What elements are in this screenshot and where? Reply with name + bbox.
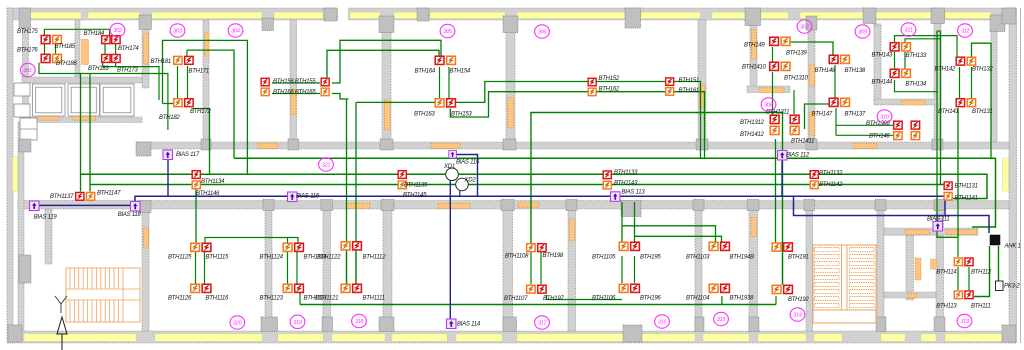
device pair BTH1124/1114	[283, 243, 292, 251]
device pair BTH152/162 stack	[588, 78, 596, 86]
wall room 317|316	[568, 209, 576, 331]
room number 309	[855, 25, 870, 38]
svg-text:BTH1131: BTH1131	[955, 184, 978, 190]
column x510	[503, 16, 518, 33]
column wall junction x201	[201, 139, 211, 150]
device pair BTH1106/196	[619, 284, 628, 292]
svg-text:AHK 1: AHK 1	[1004, 244, 1021, 250]
opening closet 1	[39, 115, 59, 120]
column wall junction bottom x875	[875, 200, 886, 211]
device pair BTH163/153	[435, 99, 444, 107]
svg-text:BTH1386: BTH1386	[866, 121, 891, 127]
device pair BTH114/112	[954, 258, 962, 266]
outer contour right	[1020, 8, 1022, 343]
device pair BTH147/137	[829, 98, 838, 106]
svg-text:303: 303	[173, 29, 181, 35]
wire room311 to crossers	[905, 39, 941, 43]
wall room 307 left	[750, 20, 757, 92]
svg-text:BTH182: BTH182	[159, 115, 180, 121]
wire room311 pair links	[895, 52, 906, 70]
svg-text:BIAS 119: BIAS 119	[34, 215, 58, 221]
svg-text:BTH111: BTH111	[971, 304, 991, 310]
column bottom wall x939	[934, 317, 945, 332]
corridor device BTH1136/1146	[192, 171, 200, 179]
wire riser to room318 b	[355, 102, 357, 284]
wall room 311|312	[934, 20, 941, 142]
room number 308	[761, 98, 776, 111]
opening in wall x203	[204, 33, 209, 56]
wire room302 cluster links	[105, 36, 116, 66]
svg-text:BTH154: BTH154	[450, 69, 471, 75]
wall room 305|306	[506, 20, 515, 142]
wire riser room302 to corridor	[80, 74, 82, 192]
svg-text:BTH1134: BTH1134	[201, 179, 225, 185]
svg-text:308: 308	[764, 103, 772, 109]
wall room 319|318	[323, 209, 331, 331]
exterior wall bottom	[8, 331, 1016, 343]
wire room316-315 bridge a	[622, 202, 716, 242]
wire room302 lower exit	[103, 63, 159, 101]
opening in wall x506	[508, 98, 514, 128]
shaft boxes left lobby	[20, 118, 37, 140]
svg-text:BTH114: BTH114	[936, 270, 957, 276]
closet boxes top-left	[33, 84, 66, 116]
svg-text:BIAS 111: BIAS 111	[927, 217, 949, 223]
column bottom-left corner	[8, 325, 22, 342]
wire room308 riser down	[775, 139, 777, 242]
svg-text:BTH1143: BTH1143	[614, 181, 638, 187]
svg-text:BTH1116: BTH1116	[206, 296, 230, 302]
svg-text:321: 321	[322, 163, 330, 169]
column on top wall x145	[139, 15, 152, 30]
svg-text:BTH162: BTH162	[599, 87, 620, 93]
svg-text:BTH1125: BTH1125	[168, 255, 192, 261]
device pair BTH113/111	[954, 291, 962, 299]
wall room 303|304	[203, 20, 209, 142]
room number 311	[901, 23, 916, 36]
svg-text:BTH184: BTH184	[84, 31, 105, 37]
wire room318 pair links	[347, 252, 357, 284]
svg-text:BTH1412: BTH1412	[740, 132, 765, 138]
column x143 corridor bottom	[139, 201, 151, 213]
wall room 307|309	[808, 20, 815, 142]
column bottom wall x754	[749, 317, 759, 332]
device pair BTH1122/1112	[341, 242, 350, 250]
wall |room 317	[503, 209, 513, 331]
wall shaft|room 313	[936, 209, 944, 331]
device pair BTH155/165 stack	[321, 78, 329, 86]
wire room302-303 links	[89, 74, 91, 76]
device pair BTH1125/1115	[191, 243, 200, 251]
column bottom-right corner	[1002, 325, 1016, 342]
svg-text:BTH166 BTH165: BTH166 BTH165	[273, 90, 316, 96]
room number 317	[535, 316, 550, 329]
svg-text:BTH152: BTH152	[599, 76, 620, 82]
AHK 1 black box	[990, 235, 1000, 245]
svg-text:XD2: XD2	[464, 178, 477, 184]
wire riser 311b down	[940, 31, 942, 185]
device pair BTH192	[772, 285, 781, 293]
svg-text:BTH113: BTH113	[936, 304, 957, 310]
wire riser 312 down	[957, 108, 959, 237]
svg-text:BTH143: BTH143	[872, 53, 893, 59]
wire navy BIAS114 riser	[449, 181, 451, 319]
wire green PK loop	[974, 246, 999, 297]
svg-text:BTH174: BTH174	[118, 46, 139, 52]
duct box left 1	[14, 83, 30, 96]
svg-text:BTH139: BTH139	[786, 51, 807, 57]
room number 302	[110, 23, 125, 36]
wire room304 loop b	[327, 50, 439, 77]
opening in wall x808	[810, 65, 815, 86]
wire navy BIAS119-BIAS118	[37, 204, 131, 206]
device pair BTH142/132	[956, 57, 964, 65]
wire navy BIAS112 drop	[781, 160, 783, 196]
insulation strip bottom	[24, 334, 136, 341]
room number 301	[20, 63, 35, 76]
svg-text:318: 318	[355, 319, 363, 325]
device pair BTH1410/1310	[770, 62, 779, 70]
wall between rooms 301-302	[75, 20, 80, 77]
svg-text:BTH1132: BTH1132	[819, 171, 843, 177]
wire riser 311 down	[937, 31, 958, 237]
svg-text:BTH172: BTH172	[190, 109, 211, 115]
wire room301-302 top link	[44, 29, 109, 35]
column wall junction bottom x321	[321, 200, 333, 211]
room number 310	[877, 110, 892, 123]
wall room 315|314	[749, 209, 758, 331]
svg-text:BTH142: BTH142	[935, 67, 956, 73]
svg-text:BTH1112: BTH1112	[363, 255, 387, 261]
wire green corridor bus 1	[234, 158, 996, 227]
inner wall left zone	[18, 122, 24, 331]
insulation strip left	[13, 157, 19, 191]
svg-text:BTH1142: BTH1142	[819, 182, 843, 188]
svg-text:BTH1123: BTH1123	[260, 296, 284, 302]
wall above lobby (left)	[22, 117, 142, 123]
svg-text:BIAS 115: BIAS 115	[456, 160, 480, 166]
column x423	[417, 8, 429, 21]
svg-text:BTH1126: BTH1126	[168, 296, 192, 302]
svg-text:BTH133: BTH133	[906, 53, 927, 59]
svg-text:BTH183: BTH183	[88, 66, 109, 72]
wire riser into room308 cluster	[793, 90, 795, 114]
device pair BTH141/131	[956, 99, 964, 107]
room number 320	[230, 316, 245, 329]
svg-text:BTH195: BTH195	[640, 255, 661, 261]
room number 319	[290, 315, 305, 328]
svg-text:311: 311	[905, 28, 913, 34]
room number 306	[535, 25, 550, 38]
column wall junction x503	[503, 139, 516, 150]
device pair BTH182	[174, 99, 182, 107]
svg-text:BTH1124: BTH1124	[260, 255, 284, 261]
wall left lobby (bottom)	[45, 209, 52, 264]
wire room304 stack links	[272, 83, 320, 94]
BIAS device BIAS 115	[449, 151, 457, 159]
wire green corridor bus 2	[81, 174, 988, 198]
column wall junction x806	[806, 139, 817, 150]
svg-text:314: 314	[793, 313, 801, 319]
svg-text:BTH191: BTH191	[788, 255, 809, 261]
svg-text:BTH197: BTH197	[543, 296, 564, 302]
opening corridor top wall x431	[431, 143, 460, 148]
room number 304	[228, 24, 243, 37]
svg-text:BTH198: BTH198	[543, 253, 564, 259]
svg-text:BTH1312: BTH1312	[740, 120, 765, 126]
wire room314 bottom	[775, 296, 777, 304]
svg-text:304: 304	[231, 29, 239, 35]
svg-text:BTH132: BTH132	[972, 67, 993, 73]
wire room303 inner drop	[186, 50, 188, 56]
wall left shaft (top band)	[23, 20, 29, 121]
column x938	[931, 8, 945, 24]
column corridor bottom x630	[621, 201, 641, 217]
svg-text:BTH192: BTH192	[788, 297, 809, 303]
svg-text:319: 319	[293, 320, 301, 326]
svg-text:BTH146: BTH146	[869, 134, 890, 140]
svg-text:BTH131: BTH131	[972, 109, 993, 115]
wire green corridor bus 4	[90, 184, 946, 186]
column x386	[379, 16, 394, 33]
svg-text:BTH1146: BTH1146	[196, 191, 220, 197]
svg-text:BTH194B: BTH194B	[730, 255, 755, 261]
opening in wall x142	[144, 34, 149, 65]
svg-text:320: 320	[233, 321, 241, 327]
wire room312 top right	[972, 43, 992, 158]
svg-text:BTH1410: BTH1410	[742, 65, 767, 71]
corridor device BTH1132/1142	[810, 171, 818, 179]
column bottom wall x386	[379, 317, 394, 332]
svg-text:316: 316	[658, 320, 666, 326]
wire room307-309	[790, 42, 833, 56]
svg-text:313: 313	[960, 319, 968, 325]
svg-text:BTH163: BTH163	[414, 112, 435, 118]
column left wall y255	[19, 255, 31, 283]
opening in wall y99 room 310	[901, 100, 925, 105]
device pair BTH1123/1113	[283, 284, 292, 292]
corridor device BTH1135/1145	[398, 171, 406, 179]
svg-text:302: 302	[113, 28, 121, 34]
wire room307 pair link	[772, 47, 774, 62]
shaft wall lower	[884, 292, 936, 298]
expansion joint gap	[337, 7, 349, 21]
corridor wall bottom	[18, 201, 1009, 210]
device pair BTH164/154	[435, 56, 444, 64]
device pair BTH1104/1938	[709, 284, 718, 292]
column wall junction x380	[380, 139, 393, 150]
device cluster room 310	[894, 121, 902, 129]
opening corridor bottom wall x346	[346, 203, 370, 208]
opening corridor top wall x853	[853, 143, 877, 148]
wire bus BTH152	[356, 82, 701, 159]
stairwell 2 wall right	[877, 209, 884, 331]
svg-text:301: 301	[24, 68, 32, 74]
wire room317 pair links	[531, 252, 541, 284]
opening wall x749	[751, 218, 757, 237]
wire room303 exit down	[193, 109, 210, 175]
Y axis symbol	[55, 296, 67, 313]
wire riser 2 to corridor	[89, 75, 91, 192]
opening corridor top wall x258	[258, 143, 278, 148]
wire navy corridor main	[135, 196, 945, 215]
wall room 309|310	[874, 99, 941, 105]
opening wall x142 bottom	[144, 228, 149, 248]
svg-text:BTH1133: BTH1133	[614, 170, 638, 176]
svg-text:BTH176: BTH176	[17, 48, 38, 54]
wire room319 pair links	[288, 252, 298, 284]
BIAS device BIAS 113	[611, 192, 621, 202]
BIAS device BIAS 114	[447, 319, 457, 329]
BIAS device BIAS 118	[131, 202, 141, 212]
column top-right	[990, 15, 1005, 32]
opening shaft wall b	[946, 230, 977, 235]
svg-text:BTH1135: BTH1135	[404, 183, 428, 189]
room number 305	[440, 24, 455, 37]
wire room313 top	[957, 237, 959, 257]
column corridor left end	[19, 139, 31, 152]
shaft wall vertical	[906, 232, 914, 300]
column wall junction bottom x934	[934, 200, 945, 211]
svg-text:XD1: XD1	[443, 164, 455, 170]
column wall junction x932	[932, 139, 943, 150]
junction box XD1	[446, 168, 459, 181]
wire room303 pair links	[163, 66, 188, 104]
svg-text:BTH1311: BTH1311	[766, 110, 789, 116]
column bottom wall x881	[876, 317, 886, 332]
free column x267	[262, 18, 274, 31]
column wall junction bottom x566	[566, 200, 577, 211]
svg-text:BTH175: BTH175	[17, 29, 38, 35]
corridor device BTH1133/1143	[603, 171, 611, 179]
svg-text:315: 315	[717, 317, 726, 323]
column bottom wall x510	[503, 317, 517, 332]
device pair BTH149/139	[770, 37, 779, 45]
wall room 316|315	[695, 209, 702, 331]
device pair BTH1126/1116	[191, 284, 200, 292]
wall room 309|310-311	[874, 24, 881, 101]
room number 312	[958, 24, 973, 37]
room number 307	[797, 20, 812, 33]
wire room306 long y112.5	[531, 113, 783, 285]
wire navy lower run to AHK	[794, 196, 990, 233]
device pair BTH156/166 stack	[261, 78, 269, 86]
opening in wall x750	[751, 30, 756, 60]
column bottom wall x632	[623, 325, 642, 342]
stairwell 2 wall left	[806, 209, 813, 331]
svg-text:BTH1145: BTH1145	[403, 193, 427, 199]
wire room314 pair links	[782, 254, 784, 285]
wall room 320|319	[265, 209, 272, 331]
column top-right corner	[1002, 8, 1016, 24]
device pair BTH175/185	[41, 35, 50, 43]
column x811	[806, 16, 817, 30]
wire room309 to room310	[836, 108, 893, 135]
svg-text:307: 307	[800, 25, 809, 31]
svg-text:BTH156 BTH155: BTH156 BTH155	[273, 79, 316, 85]
device pair room302 bottom	[102, 55, 110, 63]
wire room320 riser up	[195, 189, 197, 244]
svg-text:309: 309	[858, 30, 866, 36]
svg-text:312: 312	[961, 29, 969, 35]
opening in wall x698	[700, 85, 706, 107]
device pair BTH181	[174, 56, 182, 64]
room number 318	[352, 314, 367, 327]
svg-text:BTH1310: BTH1310	[784, 76, 809, 82]
wire room304 loop a	[332, 40, 441, 83]
BIAS device BIAS 117	[163, 150, 173, 160]
wire room316 pair links	[622, 256, 635, 283]
wall stair room|room 320	[142, 209, 149, 331]
svg-text:BTH164: BTH164	[415, 69, 436, 75]
wire room305 pair links	[440, 67, 450, 98]
room number 321	[319, 158, 334, 171]
column top-left corner	[19, 8, 31, 28]
device pair BTH1105/195	[619, 242, 628, 250]
corridor wall top	[137, 142, 1009, 149]
svg-text:BTH181: BTH181	[151, 59, 172, 65]
column corridor top wall x143	[136, 142, 151, 156]
wire room309 exit left	[805, 104, 831, 129]
device pair BTH1103/194B	[709, 242, 718, 250]
opening wall x936 upper	[931, 259, 938, 269]
device pair room302 top	[102, 36, 110, 44]
svg-text:BTH196: BTH196	[640, 296, 661, 302]
shaft wall upper	[884, 228, 978, 235]
device pair BTH148/138	[829, 55, 838, 63]
column wall junction bottom x804	[804, 200, 815, 211]
opening wall x568	[569, 219, 574, 241]
wall room 304|305	[382, 20, 391, 142]
svg-text:BTH148: BTH148	[815, 68, 836, 74]
BIAS device BIAS 111	[933, 222, 943, 232]
svg-text:BIAS 112: BIAS 112	[786, 153, 810, 159]
wire room309 pair link	[834, 65, 836, 98]
wire navy XD2 drop	[459, 191, 461, 196]
column wall junction x696	[696, 139, 708, 150]
svg-text:BTH1108: BTH1108	[505, 254, 529, 260]
column wall junction bottom x747	[747, 200, 759, 211]
wall room 306|307	[698, 20, 706, 142]
svg-text:BTH137: BTH137	[845, 112, 866, 118]
wire room311 lower exit	[895, 80, 939, 92]
svg-text:BTH173: BTH173	[117, 68, 138, 74]
insulation strip top	[30, 12, 81, 18]
wire bus BTH162	[332, 92, 705, 159]
exterior wall left	[7, 8, 13, 343]
room number 303	[170, 24, 185, 37]
junction box XD2	[456, 178, 469, 191]
PK3-2 box	[996, 281, 1004, 291]
wire room315 exit	[721, 296, 723, 305]
svg-text:BTH153: BTH153	[451, 112, 472, 118]
svg-text:BTH1938: BTH1938	[730, 296, 755, 302]
wire long y304.5	[300, 304, 776, 306]
svg-text:BTH1411: BTH1411	[791, 139, 814, 145]
svg-text:306: 306	[538, 30, 546, 36]
column bottom wall x269	[261, 317, 278, 332]
wire room303 outer loop	[163, 40, 248, 174]
wall room 307|308	[747, 86, 790, 93]
svg-text:BTH112: BTH112	[971, 270, 992, 276]
wall room 302|303	[142, 20, 149, 88]
BIAS device BIAS 112	[778, 151, 788, 161]
svg-text:BTH149: BTH149	[744, 43, 765, 49]
svg-text:BTH1106: BTH1106	[592, 296, 616, 302]
device pair BTH1121/1111	[341, 284, 350, 292]
column wall junction x288	[288, 139, 299, 150]
column bottom wall x699	[695, 317, 704, 332]
